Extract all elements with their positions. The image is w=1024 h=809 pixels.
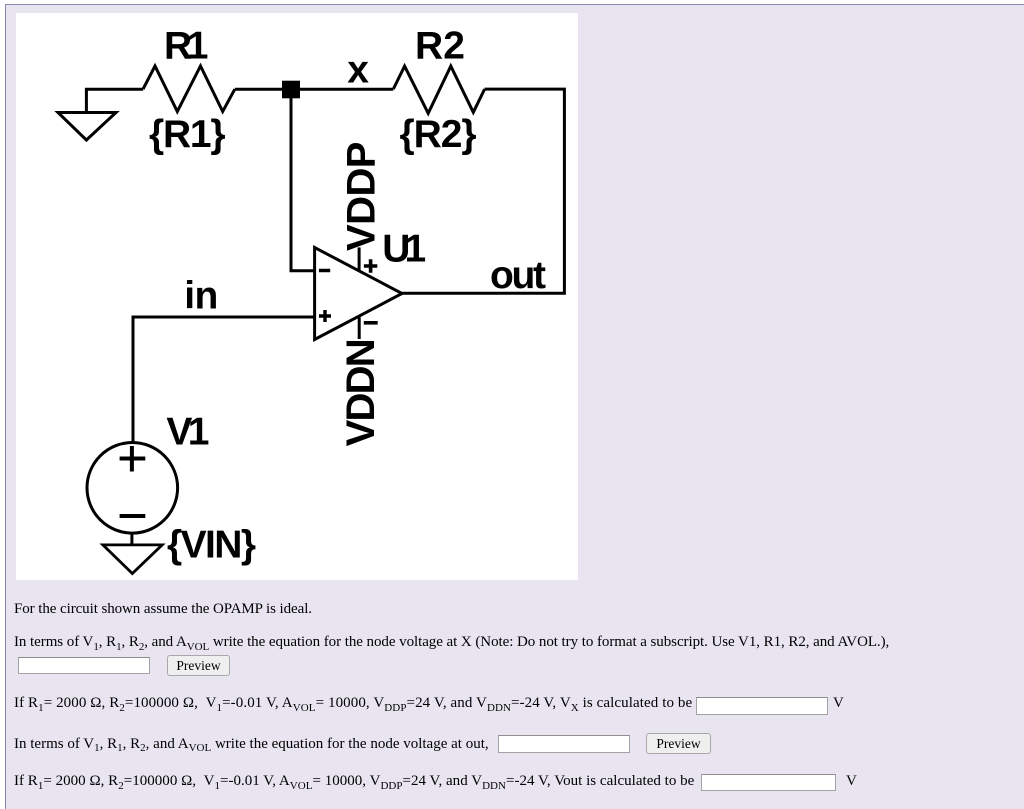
svg-text:VDDP: VDDP — [340, 142, 384, 252]
svg-text:U1: U1 — [382, 227, 426, 270]
svg-text:R1: R1 — [164, 25, 209, 68]
svg-text:{R1}: {R1} — [149, 113, 226, 156]
svg-text:VDDN: VDDN — [339, 338, 383, 446]
svg-text:{VIN}: {VIN} — [167, 524, 256, 567]
svg-text:out: out — [490, 254, 546, 297]
svg-text:{R2}: {R2} — [400, 113, 477, 156]
svg-text:x: x — [347, 48, 369, 91]
svg-text:in: in — [184, 274, 218, 317]
svg-text:R2: R2 — [415, 25, 465, 68]
svg-text:V1: V1 — [166, 411, 209, 454]
